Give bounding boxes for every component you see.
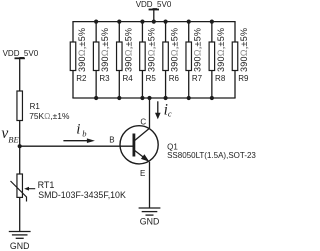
power symbol VDD_5V0 left <box>15 57 25 59</box>
resistor R3 body <box>93 42 99 71</box>
wire R2 column <box>72 22 74 98</box>
node vBE junction dot <box>18 144 22 148</box>
power symbol VDD_5V0 top <box>149 9 159 11</box>
wire RT1 to ground <box>19 197 21 231</box>
svg-text:390Ω,±5%: 390Ω,±5% <box>239 28 249 72</box>
transistor Q1 <box>120 126 158 164</box>
wire base <box>20 145 133 147</box>
current label i_b <box>76 122 86 139</box>
resistor R4 body <box>117 42 123 71</box>
svg-text:SMD-103F-3435F,10K: SMD-103F-3435F,10K <box>38 190 126 200</box>
thermistor RT1 diagonal stroke <box>11 181 27 202</box>
svg-text:Q1: Q1 <box>167 142 178 151</box>
ground symbol right <box>139 208 161 215</box>
svg-text:GND: GND <box>140 216 160 226</box>
svg-text:i: i <box>76 122 80 138</box>
current label i_c <box>164 101 172 118</box>
svg-text:c: c <box>168 108 172 118</box>
wire R9 column <box>234 22 236 98</box>
svg-text:R4: R4 <box>122 74 133 83</box>
current arrow i_b <box>63 138 95 143</box>
svg-text:390Ω,±5%: 390Ω,±5% <box>100 28 110 72</box>
svg-text:C: C <box>140 117 146 126</box>
svg-text:390Ω,±5%: 390Ω,±5% <box>193 28 203 72</box>
svg-text:B: B <box>109 136 114 145</box>
svg-text:VDD_5V0: VDD_5V0 <box>3 49 39 58</box>
wire R4 column <box>118 22 120 98</box>
svg-text:R7: R7 <box>192 74 203 83</box>
svg-text:BE: BE <box>8 134 19 144</box>
svg-text:RT1: RT1 <box>38 180 55 190</box>
svg-text:75KΩ,±1%: 75KΩ,±1% <box>29 111 70 121</box>
wire VDD left lead <box>19 58 21 91</box>
svg-text:390Ω,±5%: 390Ω,±5% <box>77 28 87 72</box>
current arrow i_c <box>155 101 161 119</box>
svg-text:VDD_5V0: VDD_5V0 <box>136 0 172 9</box>
svg-text:390Ω,±5%: 390Ω,±5% <box>146 28 156 72</box>
wire bottom rail <box>72 97 235 99</box>
node vBE label <box>1 125 19 145</box>
junction dots top rail <box>94 20 214 24</box>
svg-text:R2: R2 <box>76 74 87 83</box>
thermistor RT1 body <box>17 174 23 197</box>
wire top rail <box>72 21 235 23</box>
wire R3 column <box>95 22 97 98</box>
wire R8 column <box>211 22 213 98</box>
svg-text:R3: R3 <box>99 74 110 83</box>
resistor R6 body <box>163 42 169 71</box>
svg-text:R6: R6 <box>169 74 180 83</box>
wire R5 column <box>141 22 143 98</box>
thermistor RT1 arrow <box>24 187 35 191</box>
svg-text:R9: R9 <box>238 74 249 83</box>
svg-text:R5: R5 <box>146 74 157 83</box>
resistor R9 body <box>232 42 238 71</box>
svg-text:E: E <box>140 169 145 178</box>
svg-text:390Ω,±5%: 390Ω,±5% <box>170 28 180 72</box>
wire emitter to ground <box>149 162 151 208</box>
wire R7 column <box>188 22 190 98</box>
svg-text:b: b <box>82 128 86 138</box>
wire R6 column <box>165 22 167 98</box>
wire collector drop <box>149 98 151 128</box>
junction dots bottom rail <box>94 96 214 100</box>
svg-text:390Ω,±5%: 390Ω,±5% <box>216 28 226 72</box>
resistor R8 body <box>209 42 215 71</box>
resistor R2 body <box>70 42 76 71</box>
svg-text:SS8050LT(1.5A),SOT-23: SS8050LT(1.5A),SOT-23 <box>167 151 256 160</box>
ground symbol left <box>9 232 31 239</box>
resistor R7 body <box>186 42 192 71</box>
svg-text:R8: R8 <box>215 74 226 83</box>
svg-text:GND: GND <box>10 241 30 251</box>
wire VDD top lead <box>153 10 155 22</box>
resistor R1 body <box>17 91 23 121</box>
resistor R5 body <box>140 42 146 71</box>
svg-text:R1: R1 <box>30 102 41 111</box>
svg-text:390Ω,±5%: 390Ω,±5% <box>123 28 133 72</box>
wire R1 to node <box>19 121 21 175</box>
